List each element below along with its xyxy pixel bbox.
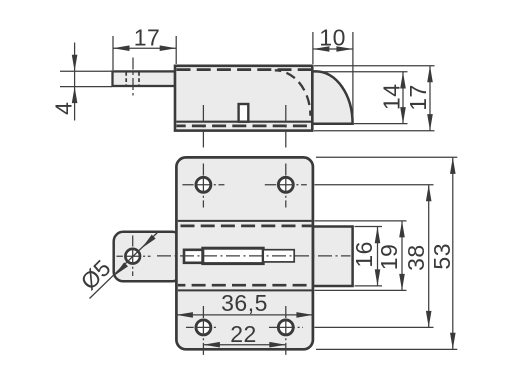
bolt centerline (132, 58, 134, 98)
screw hole top-right (278, 177, 293, 192)
bolt hidden line left (125, 72, 127, 85)
svg-text:16: 16 (351, 241, 377, 268)
pin rectangle (239, 104, 249, 122)
hidden dashed line band top (178, 225, 312, 228)
tab hole vertical centerline (132, 236, 134, 277)
band solid line top (178, 220, 312, 222)
band solid line bottom (178, 289, 312, 291)
svg-text:36,5: 36,5 (221, 290, 268, 316)
leader arrow upper (140, 235, 156, 250)
svg-text:10: 10 (319, 24, 346, 50)
hidden dashed arc (275, 70, 311, 116)
diameter leader line (90, 233, 158, 299)
projection line left (202, 105, 204, 148)
body inner solid line (176, 121, 311, 123)
knob quarter-round (312, 71, 352, 123)
svg-text:19: 19 (376, 244, 402, 271)
bolt bar (113, 71, 176, 86)
latch body (175, 66, 312, 131)
projection line right (285, 105, 287, 148)
tab hole (125, 249, 140, 264)
screw hole bottom-right (278, 320, 293, 335)
bolt bar front (263, 250, 294, 262)
screw hole top-left (196, 177, 211, 192)
svg-text:53: 53 (429, 243, 455, 270)
left tab (114, 232, 182, 281)
screw hole bottom-left (196, 320, 211, 335)
hidden dashed line bottom (177, 125, 312, 128)
slot middle box (203, 248, 263, 263)
hidden dashed line band bottom (178, 284, 312, 287)
svg-text:17: 17 (405, 84, 431, 111)
slot left cell (184, 250, 203, 263)
knob front rect (313, 227, 353, 287)
leader arrow lower (112, 262, 128, 277)
svg-text:14: 14 (378, 84, 404, 111)
svg-text:4: 4 (51, 102, 77, 115)
svg-text:38: 38 (403, 244, 429, 271)
mounting plate (176, 157, 313, 349)
main centerline (157, 255, 351, 257)
svg-text:22: 22 (230, 321, 257, 347)
tab hole horizontal centerline (117, 255, 151, 257)
hidden dashed line top (177, 68, 312, 71)
bolt hidden line right (138, 72, 140, 85)
svg-text:17: 17 (134, 24, 161, 50)
